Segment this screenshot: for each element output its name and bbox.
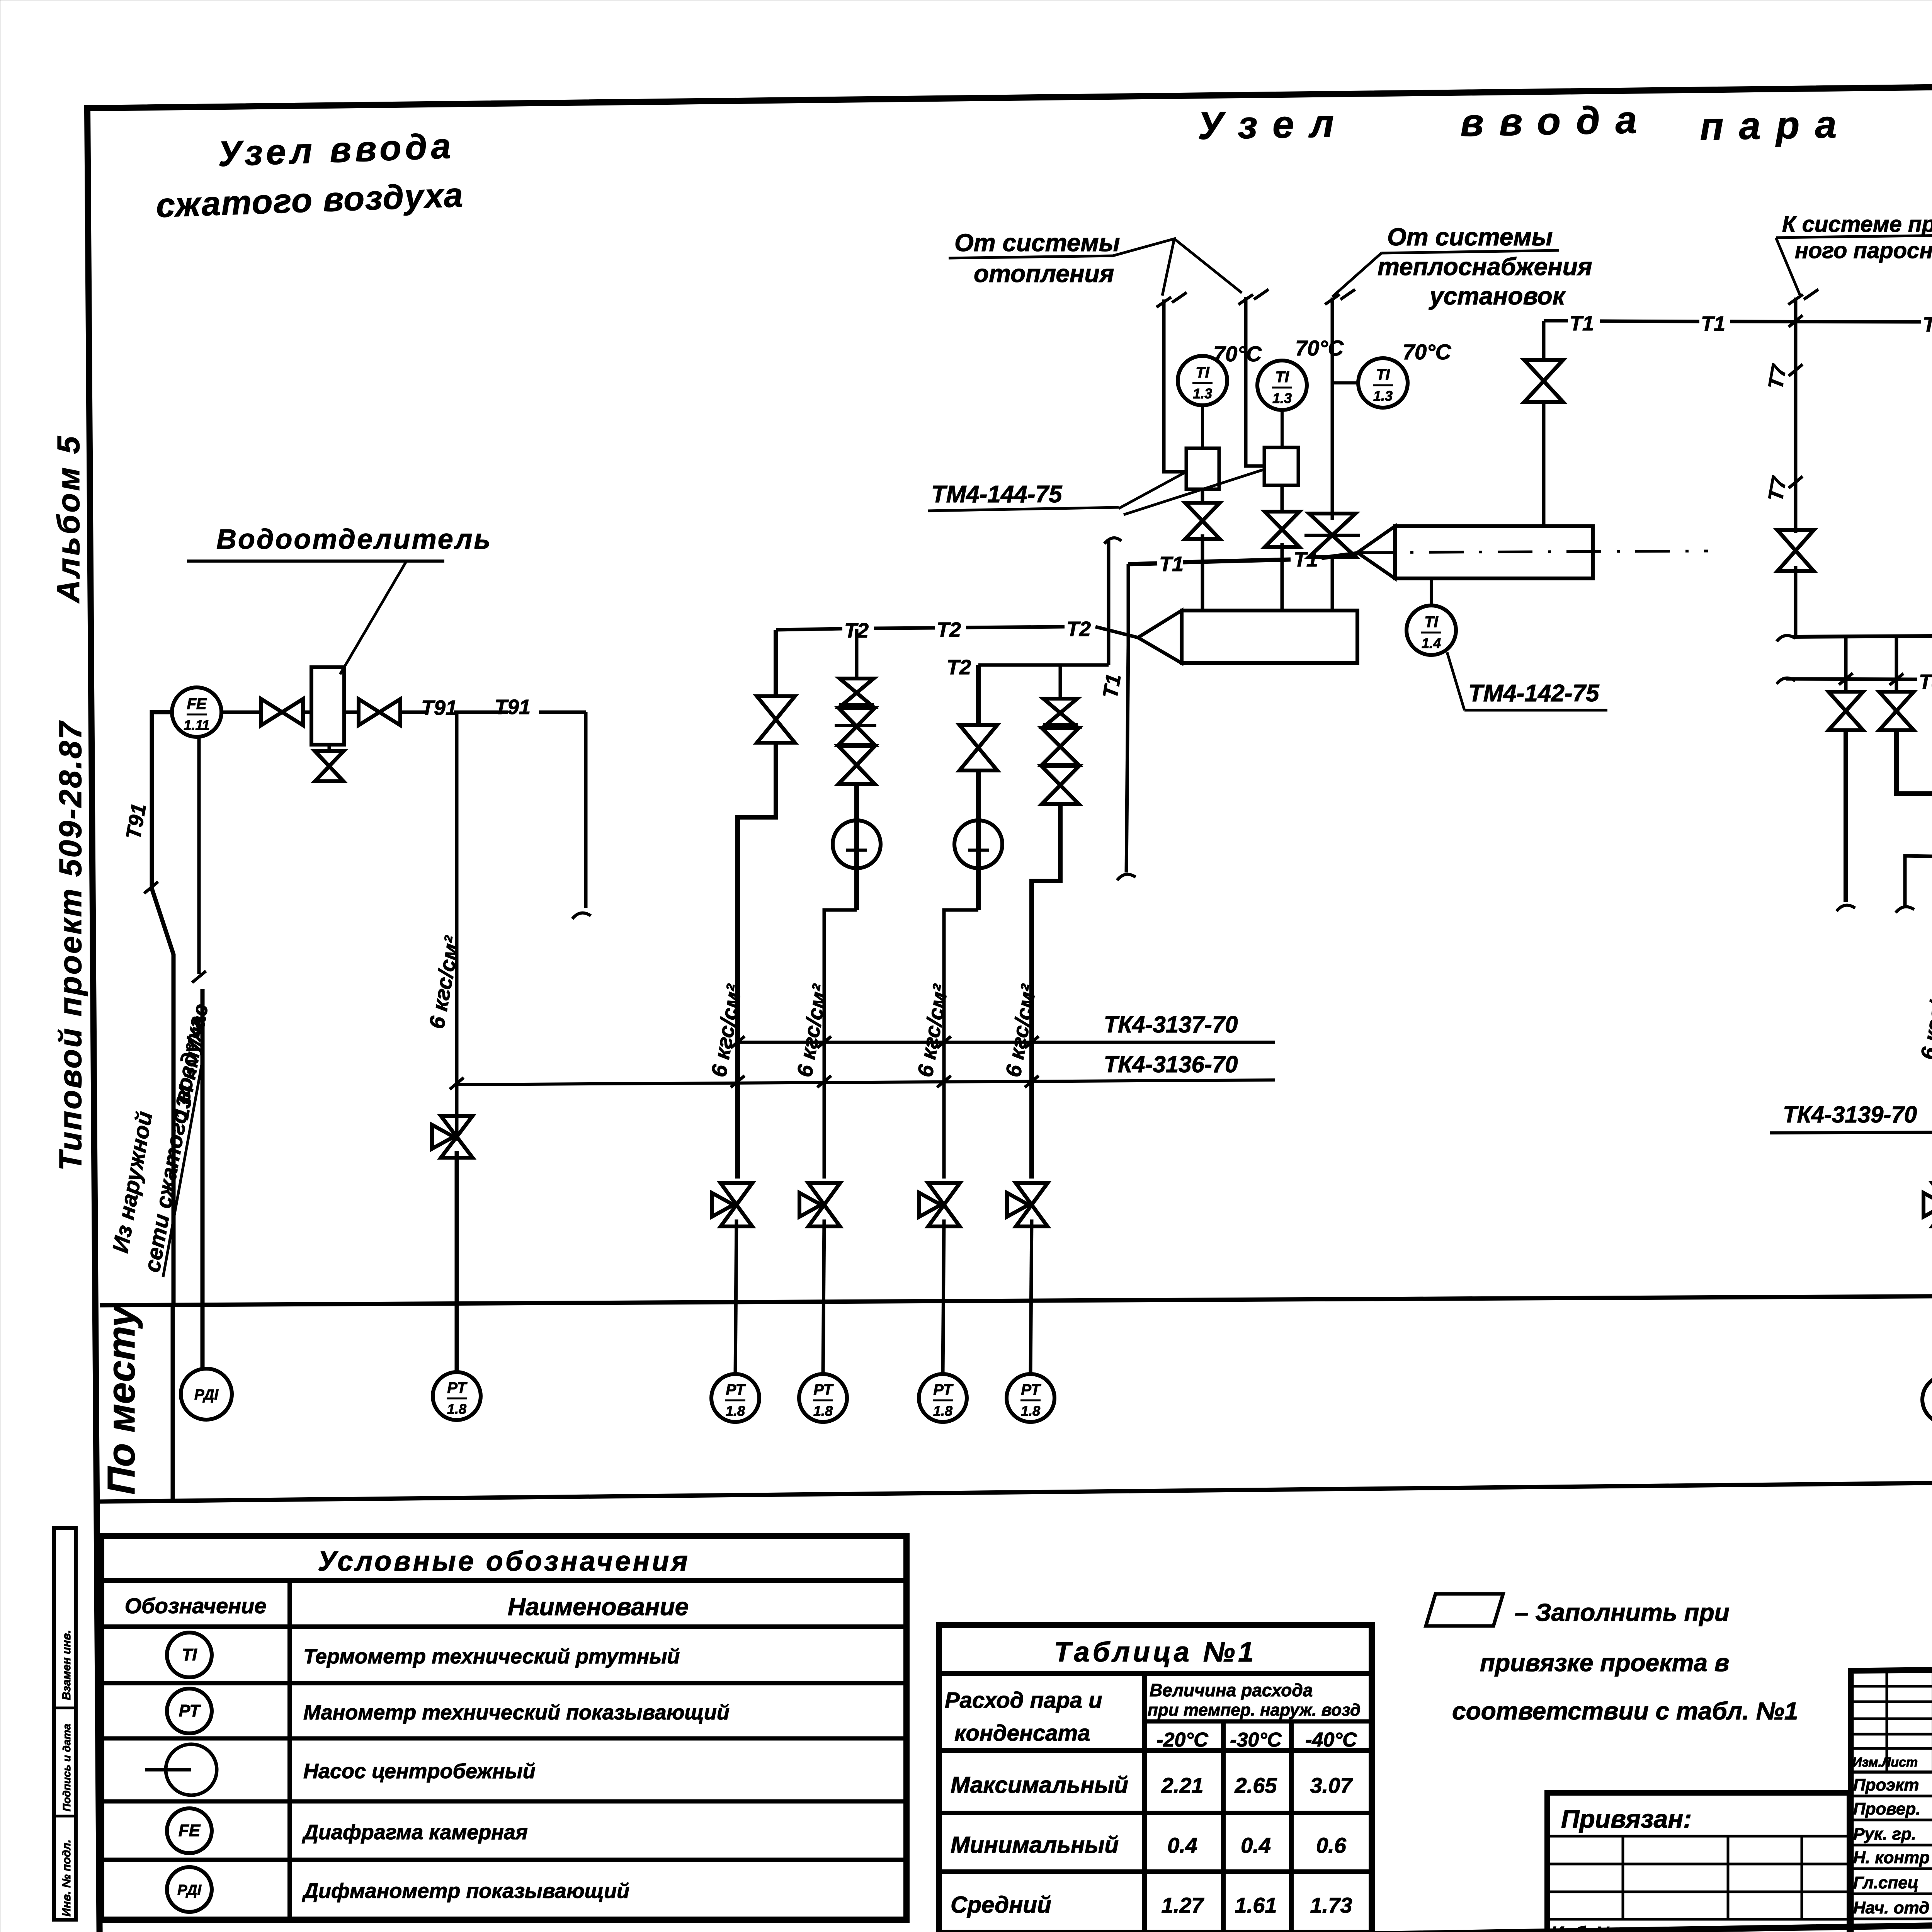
- svg-text:ТI: ТI: [182, 1645, 197, 1664]
- svg-text:установок: установок: [1429, 282, 1566, 310]
- svg-text:при темпер. наруж. возд: при темпер. наруж. возд: [1148, 1701, 1361, 1719]
- label TK4-3136-70: [1104, 1051, 1238, 1077]
- svg-text:2.65: 2.65: [1235, 1773, 1277, 1798]
- end curl drain1: [1837, 905, 1855, 911]
- svg-text:1.4: 1.4: [1422, 635, 1441, 651]
- branch1 wire to jog: [738, 743, 776, 1179]
- table1 header col line: [1142, 1673, 1147, 1932]
- stamp strip text 2: [61, 1724, 73, 1811]
- svg-text:Взамен инв.: Взамен инв.: [60, 1630, 73, 1700]
- wire T7 column upper: [1794, 298, 1798, 533]
- tick branch2 valve: [839, 703, 874, 706]
- thermometer TI1.4 under vessel: [1406, 605, 1456, 655]
- legend name 5: [302, 1879, 629, 1903]
- stub TI3 to pipe3: [1332, 381, 1358, 384]
- titleblock role Гл.спец: [1853, 1873, 1918, 1892]
- svg-text:Условные обозначения: Условные обозначения: [318, 1546, 690, 1577]
- svg-text:Наименование: Наименование: [508, 1593, 689, 1621]
- branch3 wire to pump: [976, 770, 981, 820]
- svg-text:ТI: ТI: [1376, 366, 1390, 383]
- tick branch3 at TK4-3136: [937, 1076, 951, 1087]
- stem vessel1 col1: [1201, 565, 1204, 611]
- band top line: [100, 1293, 1932, 1305]
- svg-text:От системы: От системы: [954, 229, 1120, 257]
- tick air riser at branch: [450, 1078, 464, 1089]
- privyazan outer box: [1547, 1793, 1849, 1932]
- wire pipe3 to T1 header: [1331, 558, 1334, 569]
- 3-way valve branch3: [919, 1183, 960, 1226]
- wire FE bottom drop: [197, 737, 201, 974]
- stem vessel1 col3: [1331, 569, 1334, 611]
- steam vessel (upper) body: [1395, 526, 1593, 578]
- underline TM4-144-75: [928, 507, 1119, 511]
- table1 row Максимальный: [951, 1772, 1353, 1798]
- titleblock outer: [1851, 1662, 1932, 1932]
- tick branch1 at TK4-3136: [731, 1076, 745, 1087]
- end curl main steam left: [1777, 636, 1795, 641]
- label Inv No bottom: [1551, 1923, 1616, 1932]
- svg-text:Т91: Т91: [495, 696, 531, 719]
- label 70C no3: [1403, 340, 1452, 364]
- svg-text:-20°С: -20°С: [1156, 1729, 1209, 1751]
- label Ot sistemy otopleniya: [954, 229, 1120, 287]
- label nogo parosnabzheniya: [1795, 238, 1932, 263]
- riser T2' to break curl: [1107, 541, 1111, 665]
- svg-text:1.3: 1.3: [1193, 386, 1212, 401]
- svg-text:РТ: РТ: [726, 1381, 746, 1398]
- svg-text:Альбом 5: Альбом 5: [51, 434, 86, 604]
- svg-text:Расход пара и: Расход пара и: [945, 1688, 1102, 1713]
- svg-text:РТ: РТ: [179, 1701, 201, 1720]
- pressure gauge PT1.8 branch4: [1007, 1374, 1054, 1422]
- drain2 from steam line: [1895, 637, 1898, 693]
- pressure gauge PT1.8 branch2: [799, 1374, 847, 1422]
- double valve branch2 upper: [840, 679, 874, 707]
- svg-text:привязке проекта в: привязке проекта в: [1480, 1649, 1730, 1677]
- titleblock grid rows: [1851, 1686, 1932, 1748]
- svg-text:1.8: 1.8: [813, 1403, 833, 1419]
- svg-text:Т8: Т8: [1919, 670, 1932, 694]
- 3-way valve 5047: [1923, 1183, 1932, 1226]
- branch4 wire to PT: [1031, 1219, 1032, 1374]
- legend name 3: [303, 1760, 536, 1783]
- svg-text:Привязан:: Привязан:: [1561, 1804, 1692, 1833]
- title: szhatogo vozdukha line2: [155, 175, 464, 224]
- svg-text:Проэкт: Проэкт: [1853, 1776, 1919, 1794]
- legend symbol pump: [145, 1744, 217, 1795]
- note zapolnit line1: [1515, 1599, 1730, 1626]
- label 6 kgf/cm2 branch1: [706, 982, 747, 1079]
- svg-text:FE: FE: [187, 696, 207, 713]
- wire T8 upper line: [1786, 678, 1932, 681]
- separator drain stem: [328, 745, 331, 751]
- svg-text:Т91: Т91: [421, 696, 457, 719]
- stem vessel1 col2: [1281, 567, 1284, 611]
- end curl T8 upper: [1777, 678, 1795, 684]
- tick T7 col (1): [1789, 364, 1803, 376]
- table1 temp -20: [1156, 1729, 1209, 1751]
- legend name 1: [303, 1645, 680, 1668]
- valve T7 column: [1777, 530, 1814, 571]
- table1 subcol line 1: [1221, 1721, 1226, 1932]
- svg-text:К системе производствен-: К системе производствен-: [1782, 212, 1932, 237]
- svg-text:РТ: РТ: [933, 1381, 954, 1398]
- branch3 wire to PT: [943, 1219, 944, 1374]
- svg-text:Обозначение: Обозначение: [125, 1594, 267, 1618]
- label 70C no2: [1295, 336, 1344, 360]
- stem TI2 to box2: [1281, 410, 1284, 447]
- svg-text:ТI: ТI: [1275, 369, 1289, 386]
- tick T1xT7 crossing: [1789, 315, 1803, 327]
- legend symbol RDI: [167, 1867, 212, 1912]
- privyazan col 2: [1727, 1836, 1730, 1919]
- label T1 lower header (2): [1294, 548, 1318, 571]
- svg-text:1.61: 1.61: [1235, 1893, 1277, 1917]
- wire TK4-3136-70 line: [457, 1080, 1275, 1085]
- branch2 wire to pump: [854, 784, 859, 820]
- svg-text:Инв. № подл.: Инв. № подл.: [60, 1840, 73, 1917]
- branch4 wire to jog: [1032, 804, 1060, 1179]
- stamp strip divider 1: [54, 1707, 76, 1709]
- condensate vessel (lower) body: [1182, 611, 1357, 663]
- margin caption Tipovoy proekt 509-28.87: [53, 720, 88, 1171]
- svg-text:ного пароснабжения: ного пароснабжения: [1795, 238, 1932, 263]
- label TM4-144-75: [931, 481, 1063, 508]
- pressure gauge PT1.8 branch3: [919, 1374, 967, 1422]
- privyazan row 4: [1547, 1918, 1849, 1921]
- break curl on T2' riser: [1104, 538, 1121, 544]
- svg-text:Инб. №: Инб. №: [1551, 1923, 1616, 1932]
- svg-text:Величина расхода: Величина расхода: [1150, 1680, 1313, 1700]
- table1 rashod text: [945, 1688, 1102, 1746]
- tick T7 column top: [1788, 289, 1818, 304]
- svg-text:1.3: 1.3: [1373, 388, 1393, 404]
- svg-text:Т1: Т1: [1923, 313, 1932, 336]
- end curl T1 drain: [1117, 874, 1136, 880]
- svg-text:теплоснабжения: теплоснабжения: [1378, 253, 1592, 281]
- valve pipe3 large: [1304, 514, 1360, 557]
- stamp strip text 3: [60, 1840, 73, 1917]
- label T8 upper (1): [1919, 670, 1932, 694]
- svg-text:1.27: 1.27: [1162, 1893, 1205, 1917]
- pressure gauge PT1.8 branch1: [711, 1374, 759, 1422]
- stamp strip divider 2: [54, 1815, 76, 1818]
- table1 outer box: [939, 1625, 1372, 1932]
- label TM4-142-75 mid: [1468, 680, 1600, 707]
- legend outer box: [101, 1536, 906, 1920]
- check valve branch4 middle: [1042, 728, 1079, 765]
- label Ot sistemy teplosnabzheniya: [1378, 223, 1592, 310]
- legend row line 2: [101, 1736, 906, 1741]
- svg-text:70°C: 70°C: [1403, 340, 1452, 364]
- privyazan row 1: [1547, 1835, 1849, 1838]
- svg-text:1.3: 1.3: [1272, 390, 1292, 406]
- titleblock row line 4: [1851, 1893, 1932, 1895]
- svg-text:Гл.спец: Гл.спец: [1853, 1873, 1918, 1892]
- underline Ot sistemy 2: [1381, 250, 1559, 253]
- label 134 nm3/chas: [170, 1002, 213, 1121]
- svg-text:Дифманометр показывающий: Дифманометр показывающий: [302, 1879, 629, 1903]
- svg-text:Диафрагма камерная: Диафрагма камерная: [302, 1821, 528, 1844]
- privyazan row 3: [1547, 1891, 1849, 1893]
- legend title underline row: [101, 1578, 906, 1583]
- titleblock header texts: [1852, 1753, 1932, 1770]
- branch2 wire to PT: [823, 1219, 824, 1374]
- wire valve to separator: [303, 711, 311, 714]
- branch4 drop from T2': [1059, 665, 1062, 699]
- legend header Naimenovanie: [508, 1593, 689, 1621]
- svg-text:Т2: Т2: [1066, 617, 1091, 641]
- wire TK4-3139-70 left line: [1770, 1131, 1932, 1133]
- valve branch1: [757, 696, 795, 743]
- label T2 (4) on secondary: [947, 656, 971, 679]
- wire T1 main header: [1544, 321, 1932, 323]
- svg-text:– Заполнить при: – Заполнить при: [1515, 1599, 1730, 1626]
- svg-text:FE: FE: [179, 1821, 201, 1840]
- label 70C no1: [1213, 342, 1262, 366]
- svg-text:РТ: РТ: [813, 1381, 834, 1398]
- svg-text:ввода: ввода: [1460, 98, 1653, 145]
- table1 row line 3: [939, 1869, 1372, 1874]
- svg-text:Т1: Т1: [1570, 312, 1594, 335]
- svg-text:Водоотделитель: Водоотделитель: [216, 524, 492, 555]
- arrow branch2 middle: [835, 724, 876, 727]
- label Po mestu rotated: [100, 1304, 143, 1495]
- riser vessel to T1 main: [1542, 321, 1546, 526]
- svg-text:РТ: РТ: [1021, 1381, 1041, 1398]
- main title word2: [1460, 98, 1653, 145]
- pump P1 (centrifugal): [833, 820, 881, 910]
- legend symbol PT: [167, 1689, 212, 1733]
- svg-text:Т1: Т1: [1099, 672, 1126, 700]
- svg-text:конденсата: конденсата: [954, 1721, 1090, 1746]
- svg-text:ТI: ТI: [1424, 614, 1438, 631]
- svg-text:70°C: 70°C: [1295, 336, 1344, 360]
- thermometer TI1.3 no3: [1358, 358, 1408, 408]
- supply pipe 3 (teplosnabzheniye): [1331, 298, 1334, 520]
- titleblock row line 2: [1851, 1844, 1932, 1847]
- valve on riser: [1524, 360, 1563, 402]
- valve below box1: [1185, 489, 1220, 539]
- privyazan label: [1561, 1804, 1692, 1833]
- wire T7 column to main line: [1794, 566, 1798, 638]
- 3-way valve branch1: [712, 1183, 752, 1226]
- thermometer TI1.3 no1: [1178, 356, 1227, 405]
- legend symbol FE: [167, 1808, 212, 1853]
- svg-text:Т1: Т1: [1159, 553, 1184, 576]
- leader K sisteme left: [1776, 238, 1800, 295]
- table1 title row line: [939, 1671, 1372, 1676]
- legend header Oboznachenie: [125, 1594, 267, 1618]
- label TK4-3137-70: [1104, 1012, 1238, 1037]
- leader Vodootdelitel to separator: [340, 561, 406, 674]
- tick branch4 at TK4-3136: [1025, 1076, 1039, 1087]
- svg-text:1.11: 1.11: [184, 717, 209, 733]
- label T1 main (1): [1570, 312, 1594, 335]
- leader otopleniya: [1113, 239, 1242, 296]
- separator drain valve: [315, 751, 344, 781]
- branch3 drop from T2': [976, 665, 981, 725]
- leader TM4-142-75 mid: [1447, 652, 1464, 710]
- table1 row line 2: [939, 1811, 1372, 1815]
- stem TI1 to box1: [1201, 405, 1204, 448]
- diff manometer RDI left: [181, 1369, 232, 1420]
- label TK4-3139-70 left: [1783, 1102, 1917, 1128]
- double valve branch2 lower: [838, 746, 875, 784]
- titleblock header row line: [1851, 1770, 1932, 1774]
- svg-text:РТ: РТ: [447, 1379, 468, 1396]
- label T1 rotated on drain: [1099, 672, 1126, 700]
- band divider: [171, 1306, 175, 1501]
- wire drain1 down: [1844, 730, 1848, 902]
- check valve branch2 middle: [838, 708, 875, 745]
- svg-text:2.21: 2.21: [1161, 1773, 1204, 1798]
- tick top pipe1: [1156, 293, 1187, 307]
- valve branch3: [959, 725, 997, 770]
- table1 temp -30: [1230, 1729, 1282, 1751]
- svg-text:1.8: 1.8: [1021, 1403, 1040, 1419]
- label T7 rotated (1): [1764, 362, 1791, 391]
- label T91 on line (1): [421, 696, 457, 719]
- svg-text:Изм.Лист: Изм.Лист: [1852, 1755, 1918, 1770]
- svg-text:Узел ввода: Узел ввода: [217, 126, 455, 174]
- label 6 kgf/cm2 riser 5047: [1916, 965, 1932, 1061]
- svg-text:ТК4-3136-70: ТК4-3136-70: [1104, 1051, 1238, 1077]
- titleblock row line 1: [1851, 1819, 1932, 1821]
- valve drain2: [1879, 692, 1914, 730]
- svg-text:1.8: 1.8: [726, 1403, 745, 1419]
- privyazan col 1: [1622, 1836, 1624, 1919]
- underline K sisteme: [1776, 234, 1932, 238]
- stamp strip box: [54, 1528, 76, 1920]
- stem TI1.4 to vessel: [1430, 578, 1433, 605]
- legend row line 3: [101, 1799, 906, 1804]
- main title: Uzel vvoda para word1: [1197, 102, 1350, 148]
- titleblock row line 3: [1851, 1867, 1932, 1870]
- wire air riser to band: [455, 1151, 459, 1372]
- svg-text:-30°С: -30°С: [1230, 1729, 1282, 1751]
- label T91 on line (2): [495, 696, 531, 719]
- supply pipe 1 (otopleniye): [1164, 299, 1185, 472]
- table1 subcol line 2: [1289, 1721, 1294, 1932]
- valve air inlet left: [261, 699, 303, 725]
- label T1 main (3): [1923, 313, 1932, 336]
- svg-text:Подпись и дата: Подпись и дата: [61, 1724, 73, 1811]
- double valve branch4 upper: [1043, 699, 1077, 727]
- svg-text:ТI: ТI: [1196, 364, 1209, 381]
- svg-text:От системы: От системы: [1387, 223, 1553, 251]
- supply pipe 2 (otopleniye): [1246, 297, 1263, 466]
- wire box1 valve to T1 header: [1201, 534, 1204, 565]
- wire main steam line: [1793, 628, 1932, 637]
- svg-text:Т1: Т1: [1294, 548, 1318, 571]
- table1 title: [1054, 1637, 1257, 1668]
- label Vodootdelitel (water separator): [216, 524, 492, 555]
- privyazan row 2: [1547, 1863, 1849, 1866]
- leader teplosnabzh: [1332, 253, 1381, 297]
- svg-text:Провер.: Провер.: [1853, 1799, 1920, 1818]
- table1 row line 1: [939, 1748, 1372, 1753]
- label 6 kgf/cm2 branch2: [792, 982, 832, 1079]
- condensate vessel (lower) cone: [1138, 611, 1182, 663]
- label T2 (2): [937, 618, 961, 641]
- svg-text:Типовой проект 509-28.87: Типовой проект 509-28.87: [53, 720, 88, 1171]
- svg-text:Минимальный: Минимальный: [951, 1832, 1119, 1858]
- label 6 kgf/cm2 branch4: [1001, 982, 1041, 1079]
- margin caption Album 5: [51, 434, 86, 604]
- svg-text:1.73: 1.73: [1310, 1893, 1352, 1917]
- double valve branch4 lower: [1042, 766, 1079, 804]
- svg-text:ТМ4-144-75: ТМ4-144-75: [931, 481, 1063, 508]
- tick T7 col (2): [1789, 476, 1803, 488]
- end curl of T91 drop: [572, 913, 591, 919]
- legend row line 4: [101, 1858, 906, 1862]
- wire separator to valve right: [344, 711, 359, 714]
- titleblock grid verticals: [1887, 1671, 1932, 1772]
- 3-way valve on air riser: [432, 1116, 473, 1158]
- wire T91 line right: [400, 711, 586, 714]
- label 6 kgf/cm2 on air riser: [424, 934, 464, 1031]
- underline seti szhatogo: [163, 1063, 202, 1277]
- svg-text:-40°С: -40°С: [1305, 1729, 1357, 1751]
- svg-text:Нач. отд: Нач. отд: [1853, 1898, 1929, 1917]
- note zapolnit line2: [1480, 1649, 1730, 1677]
- tick branch3 at TK4-3137: [937, 1036, 951, 1048]
- title: Uzel vvoda (air) line1: [217, 126, 455, 174]
- regulator box1 TM4-144-75: [1186, 448, 1219, 489]
- tick on left drop: [144, 882, 158, 893]
- legend header row line: [101, 1624, 906, 1629]
- svg-text:Таблица №1: Таблица №1: [1054, 1637, 1257, 1668]
- svg-text:Т2: Т2: [947, 656, 971, 679]
- svg-text:70°C: 70°C: [1213, 342, 1262, 366]
- legend row line 1: [101, 1681, 906, 1685]
- 3-way valve branch2: [799, 1183, 840, 1226]
- svg-text:ТК4-3139-70: ТК4-3139-70: [1783, 1102, 1917, 1128]
- svg-text:Манометр технический показываю: Манометр технический показывающий: [303, 1701, 730, 1724]
- valve air inlet right: [359, 699, 400, 725]
- end curl T8 lower start: [1896, 907, 1914, 913]
- table1 temp -40: [1305, 1729, 1357, 1751]
- label T2 (1): [844, 619, 869, 642]
- branch1 drop from T2: [774, 630, 778, 696]
- regulator box2 TM4-144-75: [1264, 447, 1298, 485]
- label 6 kgf/cm2 branch3: [913, 982, 953, 1079]
- wire T91 corner down right: [584, 712, 588, 908]
- wire T1 drain drop: [1126, 564, 1128, 872]
- tick end of FE bottom drop: [192, 971, 206, 983]
- branch3 jog wire: [944, 910, 978, 1179]
- legend column divider: [287, 1580, 292, 1920]
- svg-text:Рук. гр.: Рук. гр.: [1853, 1825, 1916, 1844]
- tick branch2 at TK4-3136: [817, 1076, 831, 1087]
- svg-text:Т1: Т1: [1701, 312, 1725, 335]
- wire T2' secondary line: [978, 663, 1109, 667]
- svg-text:Узел: Узел: [1197, 102, 1350, 148]
- table1 header span text: [1148, 1680, 1361, 1719]
- band bottom line: [100, 1475, 1932, 1502]
- svg-text:Термометр технический ртутный: Термометр технический ртутный: [303, 1645, 680, 1668]
- svg-text:ТК4-3137-70: ТК4-3137-70: [1104, 1012, 1238, 1037]
- tick T8x4908: [1889, 673, 1903, 685]
- drain1 from steam line: [1844, 637, 1848, 693]
- tick top pipe3: [1325, 289, 1355, 304]
- wire T2 main line: [776, 627, 1138, 638]
- note zapolnit line3: [1452, 1697, 1798, 1725]
- branch2 drop from T2: [855, 629, 859, 679]
- wire T91 branch down to PT: [455, 712, 459, 1141]
- titleblock role Рук. гр.: [1853, 1825, 1916, 1844]
